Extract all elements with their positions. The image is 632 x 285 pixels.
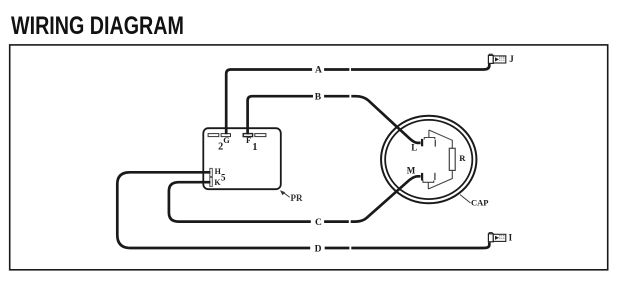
capacitor L tick plate: [434, 140, 436, 147]
capacitor CAP inner shell: [385, 120, 472, 199]
svg-text:1: 1: [252, 142, 257, 153]
terminal M plate: [421, 173, 423, 181]
border frame: [10, 45, 608, 270]
svg-text:M: M: [407, 165, 416, 175]
pin slot (right empty): [255, 134, 266, 137]
terminal H slot: [210, 168, 213, 176]
terminal K slot: [210, 177, 213, 186]
wire A: [226, 64, 489, 135]
svg-text:2: 2: [218, 141, 223, 152]
node bottom vertex and stub: [427, 182, 429, 189]
connector J: [488, 54, 505, 63]
svg-text:5: 5: [221, 172, 226, 182]
svg-text:F: F: [246, 136, 251, 145]
svg-text:C: C: [315, 218, 322, 228]
pin G slot: [221, 134, 230, 137]
svg-text:G: G: [223, 136, 230, 145]
capacitor L bracket plate: [424, 138, 435, 140]
svg-text:L: L: [411, 142, 417, 152]
capacitor CAP outer shell: [381, 116, 476, 203]
pin slot (left empty): [208, 134, 219, 137]
capacitor M bracket plate: [423, 180, 434, 182]
svg-text:D: D: [315, 244, 322, 254]
svg-text:I: I: [509, 233, 513, 243]
protector PR box: [203, 128, 280, 189]
wire from L node to resistor: [429, 130, 452, 148]
wire D: [117, 172, 489, 248]
capacitor M tick plate: [434, 173, 436, 180]
wire C: [169, 176, 421, 221]
wire from resistor to M node: [428, 170, 452, 189]
svg-text:CAP: CAP: [471, 198, 488, 208]
svg-text:B: B: [315, 93, 322, 103]
connector I: [488, 233, 505, 242]
node top vertex and stub: [428, 130, 430, 138]
svg-text:A: A: [315, 65, 322, 75]
terminal L plate: [421, 139, 423, 146]
svg-text:PR: PR: [291, 193, 303, 203]
wire B: [248, 96, 421, 143]
svg-text:R: R: [459, 153, 466, 163]
pin F slot: [243, 134, 252, 137]
leader line to CAP: [460, 195, 471, 203]
leader arrow to PR: [280, 190, 290, 197]
resistor R: [449, 148, 455, 170]
svg-text:J: J: [509, 54, 514, 64]
